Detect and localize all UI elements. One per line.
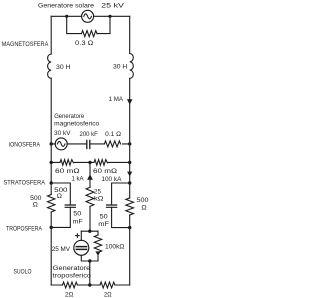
svg-text:500: 500 — [137, 197, 149, 204]
svg-text:25 MV: 25 MV — [52, 246, 71, 253]
svg-text:2Ω: 2Ω — [65, 291, 74, 298]
svg-text:30 H: 30 H — [56, 64, 71, 71]
svg-text:25: 25 — [94, 189, 101, 196]
svg-text:troposferico: troposferico — [53, 272, 92, 279]
svg-text:Generatore solare: Generatore solare — [38, 2, 94, 9]
svg-text:100kΩ: 100kΩ — [105, 244, 125, 251]
svg-text:kΩ: kΩ — [94, 196, 104, 203]
svg-text:Ω: Ω — [141, 204, 146, 211]
svg-text:TROPOSFERA: TROPOSFERA — [6, 226, 42, 233]
svg-text:mF: mF — [98, 221, 109, 228]
svg-text:2Ω: 2Ω — [104, 291, 112, 298]
svg-text:1 MA: 1 MA — [109, 96, 124, 103]
svg-text:30 kV: 30 kV — [54, 130, 71, 137]
svg-text:100 kA: 100 kA — [101, 176, 122, 183]
svg-text:STRATOSFERA: STRATOSFERA — [4, 179, 46, 186]
svg-text:0.1 Ω: 0.1 Ω — [105, 131, 121, 138]
svg-text:50: 50 — [73, 211, 82, 218]
svg-text:MAGNETOSFERA: MAGNETOSFERA — [2, 41, 49, 48]
svg-text:magnetosferico: magnetosferico — [54, 120, 99, 127]
svg-text:Generatore: Generatore — [53, 265, 91, 272]
svg-text:30 H: 30 H — [113, 64, 128, 71]
svg-text:60 mΩ: 60 mΩ — [93, 168, 117, 175]
svg-text:50: 50 — [100, 214, 109, 221]
svg-text:mF: mF — [73, 219, 83, 226]
svg-text:Generatore: Generatore — [54, 113, 84, 120]
svg-text:IONOSFERA: IONOSFERA — [9, 141, 41, 148]
svg-text:60 mΩ: 60 mΩ — [55, 168, 80, 175]
svg-text:0.3 Ω: 0.3 Ω — [75, 40, 94, 47]
svg-text:Ω: Ω — [33, 201, 38, 208]
svg-text:Ω: Ω — [57, 193, 62, 200]
svg-text:SUOLO: SUOLO — [14, 269, 32, 276]
svg-text:200 kF: 200 kF — [80, 131, 98, 138]
svg-text:1 kA: 1 kA — [72, 175, 85, 182]
svg-text:25 kV: 25 kV — [101, 2, 124, 9]
